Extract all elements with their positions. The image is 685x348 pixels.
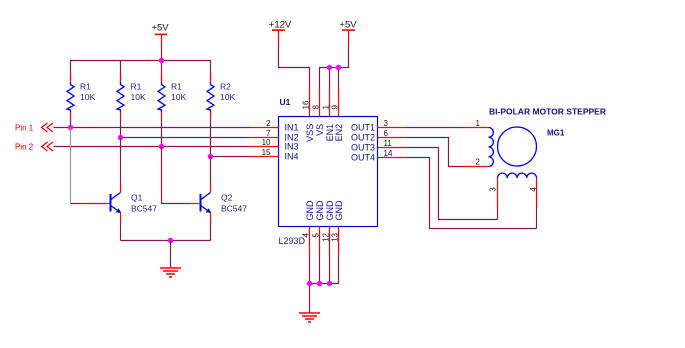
svg-text:GND: GND: [305, 200, 315, 221]
node +12V power symbol: [269, 20, 292, 45]
node junction dot emitter rail: [168, 238, 173, 243]
svg-text:1: 1: [476, 119, 481, 128]
resistor R2: [207, 74, 235, 119]
inductor winding B (horizontal coil): [498, 173, 537, 178]
svg-text:U1: U1: [280, 97, 291, 107]
node junction dot gnd3: [327, 281, 332, 286]
resistor R1 (second): [117, 74, 146, 119]
svg-text:13: 13: [331, 232, 340, 241]
motor MG1 bi-polar stepper: [489, 106, 606, 137]
pin VSS (16): [302, 89, 315, 142]
svg-text:16: 16: [302, 100, 311, 109]
ground (transistor emitters): [160, 268, 181, 277]
svg-text:IN4: IN4: [285, 151, 299, 161]
svg-text:R1: R1: [80, 81, 91, 91]
node Pin 1 input terminal: [15, 123, 53, 133]
pin GND (4): [302, 200, 315, 255]
svg-text:GND: GND: [315, 200, 325, 221]
node junction dot gnd1: [307, 281, 312, 286]
node +5V power symbol (center): [339, 20, 357, 45]
node junction dot EN2: [336, 65, 341, 70]
svg-text:OUT3: OUT3: [351, 142, 375, 152]
svg-text:10K: 10K: [131, 92, 146, 102]
svg-text:R2: R2: [220, 81, 231, 91]
ground (IC GND pins): [299, 313, 320, 322]
wire OUT1 to motor terminal 1: [406, 127, 463, 129]
motor body circle: [498, 127, 537, 166]
svg-text:2: 2: [476, 158, 481, 167]
resistor R1 (third): [158, 74, 186, 119]
op-amp U1 L293D IC body: [279, 97, 378, 246]
pin GND (12): [322, 200, 335, 255]
svg-text:IN1: IN1: [285, 122, 299, 132]
svg-text:12: 12: [322, 232, 331, 241]
svg-text:15: 15: [262, 148, 271, 157]
wire OUT4 to motor terminal 4: [406, 158, 537, 229]
svg-text:VSS: VSS: [305, 124, 315, 142]
svg-text:3: 3: [384, 119, 389, 128]
svg-text:10K: 10K: [220, 92, 235, 102]
svg-text:R1: R1: [171, 81, 182, 91]
svg-text:Q2: Q2: [221, 193, 233, 203]
wire R1(3) bottom to Pin2 row: [161, 119, 163, 147]
pin GND (13): [331, 200, 344, 255]
svg-text:+5V: +5V: [151, 23, 169, 34]
svg-text:1: 1: [322, 105, 331, 110]
wire rail down to ground: [170, 241, 172, 269]
svg-text:4: 4: [302, 232, 311, 237]
svg-text:BC547: BC547: [221, 203, 247, 213]
node +5V power symbol (left): [151, 23, 169, 48]
svg-text:14: 14: [384, 149, 393, 158]
svg-text:4: 4: [529, 187, 538, 192]
resistor R1 (first): [67, 74, 95, 119]
node junction dot gnd2: [317, 281, 322, 286]
svg-text:2: 2: [266, 119, 271, 128]
svg-text:OUT2: OUT2: [351, 132, 375, 142]
wire Q2 collector up to row4: [210, 183, 212, 193]
svg-text:+5V: +5V: [339, 20, 357, 31]
node junction dot row2/R1(2): [118, 135, 123, 140]
node junction dot bus/+5V: [159, 58, 164, 63]
svg-text:5: 5: [312, 232, 321, 237]
wire Pin2 down to Q2 base: [162, 147, 191, 204]
pin OUT4 (14): [351, 149, 406, 162]
wire IN4 row (Q2 collector to IC): [211, 156, 250, 158]
pin IN4 (15): [250, 148, 299, 161]
pin GND (5): [312, 200, 325, 255]
svg-text:6: 6: [384, 129, 389, 138]
node junction dot row4/R2: [208, 154, 213, 159]
svg-text:7: 7: [266, 129, 271, 138]
node junction dot Pin2/R1(3): [159, 144, 164, 149]
pin IN1 (2): [250, 119, 299, 132]
wire Pin1 row to IN1: [54, 127, 250, 129]
svg-text:BI-POLAR MOTOR STEPPER: BI-POLAR MOTOR STEPPER: [489, 106, 606, 116]
svg-text:MG1: MG1: [547, 128, 565, 137]
svg-text:9: 9: [331, 105, 340, 110]
svg-text:OUT4: OUT4: [351, 152, 375, 162]
transistor Q2: [201, 193, 248, 214]
svg-text:OUT1: OUT1: [351, 122, 375, 132]
pin EN2 (9): [331, 89, 344, 142]
wire IN2 row (Q1 collector to IC): [121, 137, 250, 139]
wire GND pins to ground bus: [310, 255, 339, 314]
wire +5V to resistor bus: [161, 47, 163, 61]
wire R1 bottom to Pin1 row: [70, 119, 72, 128]
svg-text:EN2: EN2: [334, 124, 344, 142]
pin OUT3 (11): [351, 139, 406, 152]
svg-text:Pin 2: Pin 2: [15, 143, 34, 152]
node Pin 2 input terminal: [15, 142, 53, 152]
svg-text:VS: VS: [315, 124, 325, 136]
svg-text:BC547: BC547: [131, 203, 157, 213]
inductor winding A (vertical coil): [489, 128, 494, 167]
wire Pin1 down to Q1 base (gray net): [70, 128, 72, 204]
svg-text:10K: 10K: [171, 92, 186, 102]
wire Pin2 row to IN3: [54, 146, 250, 148]
wire R1(2) bottom to IN2 row: [120, 119, 122, 138]
svg-text:3: 3: [488, 187, 497, 192]
wire +5V to VS/EN1/EN2: [320, 44, 349, 89]
svg-text:GND: GND: [334, 200, 344, 221]
wire Q2 emitter down: [210, 213, 212, 223]
svg-text:10: 10: [262, 138, 271, 147]
pin EN1 (1): [322, 89, 335, 142]
transistor Q1: [111, 193, 158, 214]
svg-text:IN3: IN3: [285, 141, 299, 151]
node junction dot Pin1/R1: [68, 125, 73, 130]
pin VS (8): [312, 89, 325, 136]
wire R2 bottom to IN4 row: [210, 119, 212, 157]
wire Q1 collector up to row2: [120, 183, 122, 193]
wire resistor top bus: [71, 61, 211, 83]
node junction dot EN1: [327, 65, 332, 70]
svg-text:Pin 1: Pin 1: [15, 124, 34, 133]
pin IN2 (7): [250, 129, 299, 142]
pin OUT2 (6): [351, 129, 406, 142]
wire Q1 emitter down: [120, 213, 122, 223]
wire OUT3 to motor terminal 3: [406, 148, 498, 220]
svg-text:8: 8: [312, 105, 321, 110]
svg-text:Q1: Q1: [131, 193, 143, 203]
wire +12V to VSS: [279, 44, 310, 89]
wire emitter rail: [121, 240, 211, 242]
svg-text:11: 11: [384, 139, 393, 148]
svg-text:+12V: +12V: [269, 20, 292, 31]
wire OUT2 to motor terminal 2: [406, 138, 463, 167]
wire Q1 base horizontal: [71, 203, 86, 205]
svg-text:R1: R1: [131, 81, 142, 91]
pin IN3 (10): [250, 138, 299, 151]
svg-text:10K: 10K: [80, 92, 95, 102]
pin OUT1 (3): [351, 119, 406, 132]
